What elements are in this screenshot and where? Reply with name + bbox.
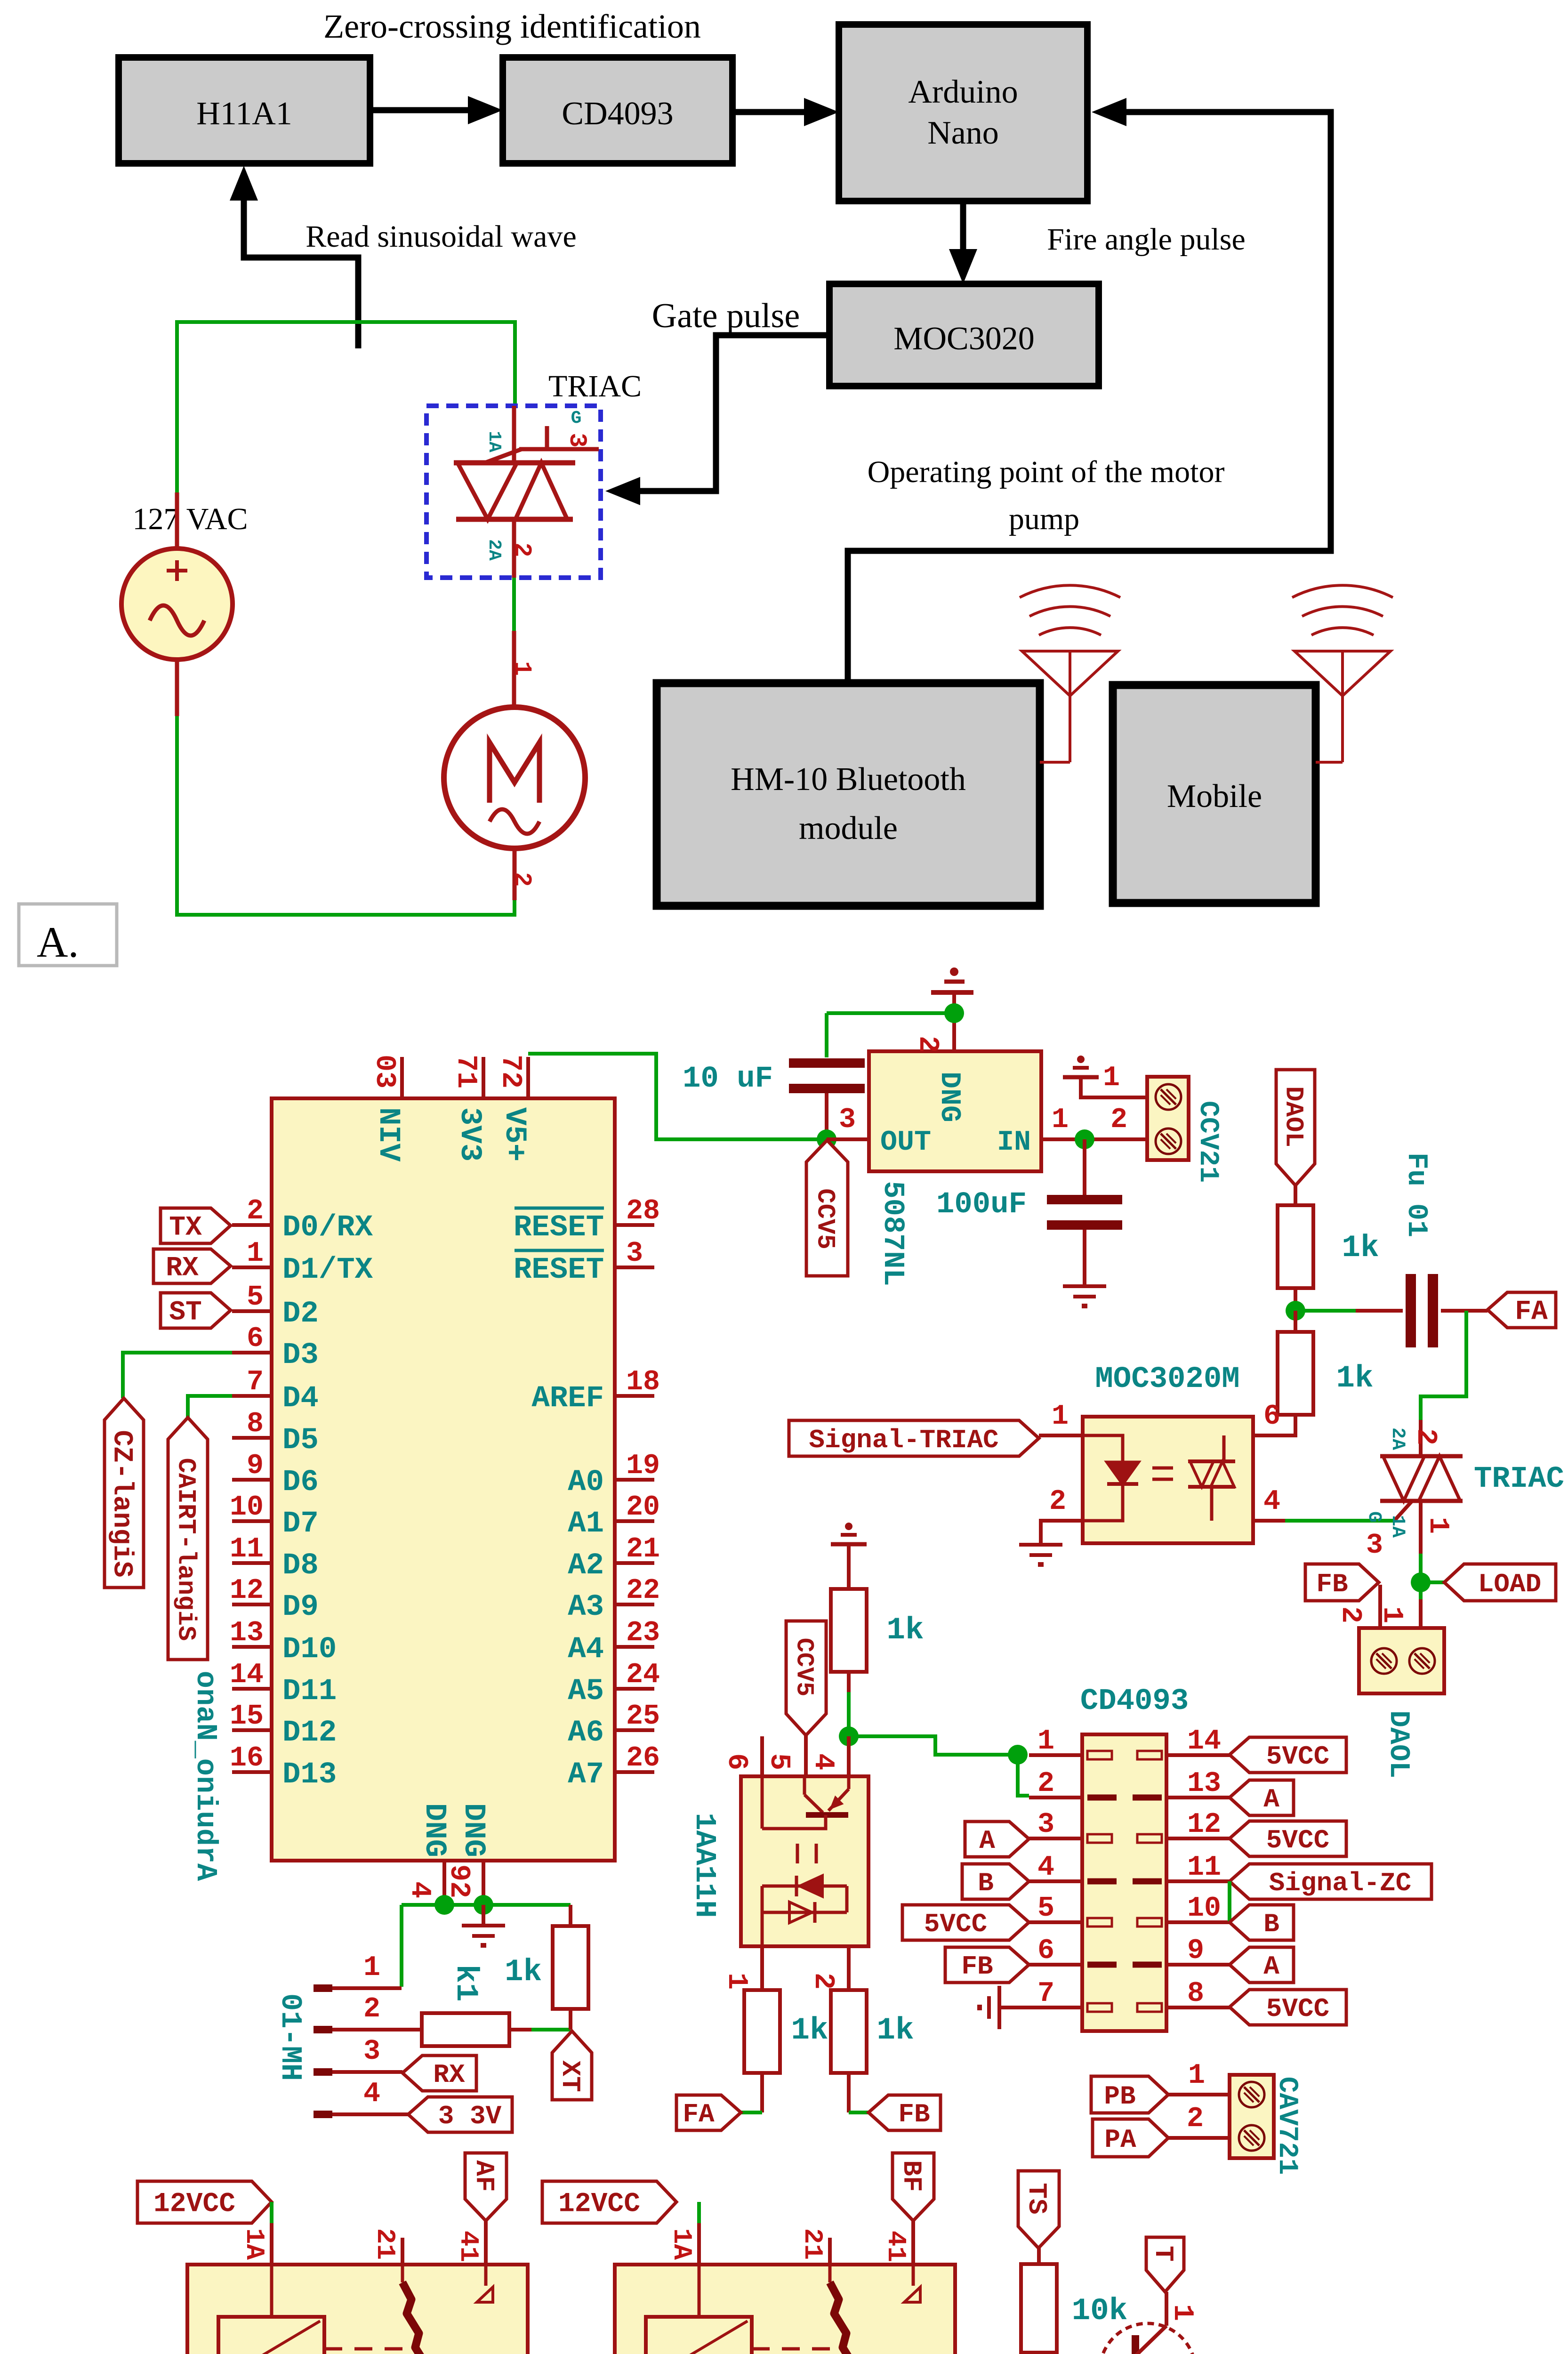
optocoupler U4 H11AA1 body xyxy=(741,1776,868,1946)
global label 5VCC (CD4093 pin8) xyxy=(1230,1990,1346,2025)
junction OUT node xyxy=(817,1129,836,1149)
Arduino pin 21 (A2) xyxy=(615,1561,654,1565)
svg-text:FB: FB xyxy=(961,1951,993,1982)
relay K2 body xyxy=(615,2265,955,2354)
svg-text:onaN_oniudrA: onaN_oniudrA xyxy=(189,1671,222,1881)
svg-text:5VCC: 5VCC xyxy=(1266,1994,1329,2024)
svg-text:CD4093: CD4093 xyxy=(1080,1685,1189,1718)
AC source V1 127VAC xyxy=(175,492,179,549)
svg-text:5087NL: 5087NL xyxy=(876,1181,909,1286)
global label RX (Arduino) xyxy=(153,1249,231,1283)
global label ST (Arduino) xyxy=(161,1293,231,1328)
svg-text:A: A xyxy=(1263,1951,1279,1982)
wire 5VCC flag to pin 5 xyxy=(804,1735,808,1776)
svg-text:1: 1 xyxy=(1422,1517,1454,1534)
svg-text:1k: 1k xyxy=(876,2013,914,2048)
svg-text:PA: PA xyxy=(1104,2125,1136,2155)
svg-text:8: 8 xyxy=(1187,1978,1204,2010)
H11AA1 pin 6 stub xyxy=(760,1736,764,1776)
svg-text:D12: D12 xyxy=(282,1716,337,1750)
LN7805 pin 3 wire xyxy=(827,1137,869,1141)
svg-text:10: 10 xyxy=(1187,1893,1221,1925)
svg-text:CCV5: CCV5 xyxy=(790,1638,818,1697)
svg-text:module: module xyxy=(799,810,898,846)
wire GND bus to resistor R-TX xyxy=(569,1905,572,1926)
arrow Arduino to MOC3020 (fire angle pulse) xyxy=(960,201,966,258)
svg-text:4: 4 xyxy=(807,1753,839,1770)
svg-text:2: 2 xyxy=(1110,1104,1127,1136)
svg-text:6: 6 xyxy=(1263,1401,1280,1433)
global label FB (CD4093 pin6) xyxy=(945,1947,1029,1983)
svg-text:D3: D3 xyxy=(282,1338,319,1372)
svg-text:H11A1: H11A1 xyxy=(196,96,292,132)
CD4093 pin 9 xyxy=(1166,1963,1230,1967)
wire +5V to LN7805 OUT (green) xyxy=(528,1054,825,1139)
MOC3020M internal triac xyxy=(1188,1459,1235,1463)
wire to CD4093 pin2 (green) xyxy=(1018,1755,1029,1796)
global label PB (127VAC) xyxy=(1091,2076,1168,2113)
wire 3 3V flag to HM-10 pin4 xyxy=(332,2112,408,2116)
svg-text:Fu 01: Fu 01 xyxy=(1400,1153,1432,1237)
CD4093 pin 1 xyxy=(1029,1753,1082,1757)
CD4093 pin 6 xyxy=(1029,1963,1082,1967)
relay K2 switch arm xyxy=(830,2282,870,2354)
Arduino pin 16 (D13) xyxy=(232,1770,272,1774)
wire R3 to junction xyxy=(847,1672,851,1692)
svg-text:D9: D9 xyxy=(282,1590,319,1624)
wire GND bus down to HM-10 pin1 xyxy=(400,1905,403,1987)
terminal block X2 LOAD xyxy=(1359,1628,1444,1693)
svg-text:2: 2 xyxy=(1409,1428,1441,1445)
svg-text:3 3V: 3 3V xyxy=(438,2101,502,2131)
svg-text:1A: 1A xyxy=(1387,1515,1408,1538)
Arduino top pin 27 (+5V) xyxy=(526,1057,530,1098)
svg-text:Operating point of the motor: Operating point of the motor xyxy=(868,455,1225,489)
svg-text:Fire angle pulse: Fire angle pulse xyxy=(1047,222,1246,257)
svg-text:19: 19 xyxy=(626,1450,660,1482)
gate pulse wire to TRIAC xyxy=(635,335,829,491)
svg-text:92: 92 xyxy=(442,1864,474,1898)
global label 3 3V (HM-10) xyxy=(408,2097,512,2132)
global label LOAD (to the right) xyxy=(1421,1580,1444,1584)
svg-text:B: B xyxy=(978,1868,994,1898)
svg-text:3: 3 xyxy=(626,1238,643,1270)
svg-text:13: 13 xyxy=(1187,1768,1221,1800)
svg-text:11: 11 xyxy=(230,1533,264,1565)
svg-text:13: 13 xyxy=(230,1617,264,1649)
svg-text:Nano: Nano xyxy=(927,115,999,151)
global label FA (top right) xyxy=(1488,1292,1556,1328)
IC U1 Arduino_Nano body xyxy=(272,1098,615,1861)
svg-text:72: 72 xyxy=(494,1055,526,1088)
transistor Q2 BC548 xyxy=(1100,2323,1196,2354)
global label FB (pin2 of load terminal) xyxy=(1305,1564,1379,1601)
H11AA1 pin 2 xyxy=(847,1946,851,1990)
svg-text:D7: D7 xyxy=(282,1507,319,1541)
svg-text:FA: FA xyxy=(683,2099,715,2129)
svg-text:D4: D4 xyxy=(282,1382,319,1416)
motor M1 xyxy=(444,707,585,848)
block MOC3020 xyxy=(829,284,1099,386)
svg-text:2: 2 xyxy=(807,1973,839,1990)
svg-text:TS: TS xyxy=(1021,2183,1052,2214)
svg-text:71: 71 xyxy=(450,1055,482,1088)
wire HM-10 pin1 to GND bus xyxy=(332,1986,402,1990)
svg-text:9: 9 xyxy=(247,1450,264,1482)
svg-text:03: 03 xyxy=(368,1055,400,1088)
svg-text:T: T xyxy=(1148,2246,1178,2262)
HM-10 pin 1 xyxy=(314,1984,332,1992)
CD4093 pin 10 xyxy=(1166,1920,1230,1924)
wire 12VCC to K1 A1 xyxy=(270,2202,273,2223)
svg-text:21: 21 xyxy=(626,1533,660,1565)
wire FB to terminal pin 2 xyxy=(1378,1585,1382,1628)
power flag 5VCC xyxy=(825,1139,828,1162)
svg-text:23: 23 xyxy=(626,1617,660,1649)
svg-text:100uF: 100uF xyxy=(936,1188,1027,1222)
svg-text:RESET: RESET xyxy=(514,1211,604,1245)
block H11A1 xyxy=(119,57,370,163)
resistor R3 1k (pull-up) xyxy=(831,1589,867,1672)
svg-text:k1: k1 xyxy=(448,1964,483,2001)
H11AA1 internal phototransistor xyxy=(803,1776,806,1795)
svg-text:RX: RX xyxy=(433,2060,465,2090)
Arduino pin 18 (AREF) xyxy=(615,1394,654,1398)
svg-text:A1: A1 xyxy=(568,1507,604,1541)
svg-text:127 VAC: 127 VAC xyxy=(132,502,248,536)
Arduino pin 10 (D7) xyxy=(232,1519,272,1523)
junction GND pin4 xyxy=(434,1895,454,1915)
svg-text:V5+: V5+ xyxy=(497,1107,531,1161)
svg-text:A0: A0 xyxy=(568,1466,604,1499)
junction R1-R2-C3 xyxy=(1294,1288,1297,1311)
svg-text:OUT: OUT xyxy=(880,1127,931,1159)
svg-text:15: 15 xyxy=(230,1701,264,1733)
Arduino pin 1 (D1/TX) xyxy=(232,1266,272,1269)
svg-text:D0/RX: D0/RX xyxy=(282,1211,373,1245)
Arduino pin 26 (A7) xyxy=(615,1770,654,1774)
power flag 5VCC (H11AA1) xyxy=(786,1621,826,1735)
relay K1 switch common pin 12 xyxy=(401,2238,404,2265)
HM-10 pin 3 xyxy=(314,2068,332,2076)
global label TX (HM-10, vertical) xyxy=(552,2031,592,2100)
relay K1 body xyxy=(187,2265,528,2354)
svg-text:1A: 1A xyxy=(484,431,504,452)
Arduino pin 3 (RESET) xyxy=(615,1266,654,1269)
svg-text:AF: AF xyxy=(469,2160,499,2192)
global label LOAD (vertical top) xyxy=(1276,1070,1315,1185)
junction H11AA1 pin4 node xyxy=(839,1726,859,1746)
Arduino pin 12 (D9) xyxy=(232,1603,272,1606)
HM-10 pin 4 xyxy=(314,2111,332,2118)
wire R8 to base xyxy=(1039,2353,1129,2354)
Arduino pin 28 (RESET) xyxy=(615,1223,654,1227)
svg-text:D6: D6 xyxy=(282,1466,319,1499)
svg-text:DNG: DNG xyxy=(933,1072,965,1122)
svg-text:5: 5 xyxy=(763,1753,795,1770)
svg-text:6: 6 xyxy=(247,1323,264,1355)
svg-text:2: 2 xyxy=(247,1195,264,1227)
svg-text:PB: PB xyxy=(1104,2081,1135,2112)
CD4093 pin 12 xyxy=(1166,1837,1230,1840)
svg-text:1k: 1k xyxy=(886,1612,924,1648)
svg-text:25: 25 xyxy=(626,1701,660,1733)
global label RX (HM-10) xyxy=(402,2056,476,2091)
svg-text:14: 14 xyxy=(230,1659,264,1691)
wire junction down to H11AA1 pin 4 xyxy=(847,1736,851,1776)
svg-text:2: 2 xyxy=(911,1036,943,1053)
wire D4 to Signal-TRIAC xyxy=(188,1396,232,1418)
svg-text:CAV721: CAV721 xyxy=(1271,2077,1302,2175)
svg-text:Signal-TRIAC: Signal-TRIAC xyxy=(809,1425,998,1455)
svg-text:Mobile: Mobile xyxy=(1167,778,1262,814)
global label 5VCC (CD4093 pin12) xyxy=(1230,1821,1346,1856)
svg-text:2: 2 xyxy=(1037,1768,1054,1800)
svg-text:4: 4 xyxy=(1037,1852,1054,1884)
Arduino pin 9 (D6) xyxy=(232,1478,272,1482)
svg-text:1: 1 xyxy=(1052,1401,1069,1433)
svg-text:21: 21 xyxy=(797,2228,828,2260)
global label FA (above K1) xyxy=(465,2153,507,2221)
wire GND bus under Arduino xyxy=(402,1903,571,1907)
CD4093 pin 8 xyxy=(1166,2006,1230,2009)
wire junction to C3 (green) xyxy=(1295,1309,1356,1313)
svg-text:FA: FA xyxy=(1515,1297,1548,1328)
svg-text:G: G xyxy=(571,408,582,428)
svg-text:20: 20 xyxy=(626,1491,660,1524)
wire PA to terminal pin2 xyxy=(1168,2136,1230,2140)
svg-text:2: 2 xyxy=(1334,1606,1366,1623)
feedback wire Arduino to HM-10 xyxy=(848,112,1331,683)
svg-text:1: 1 xyxy=(508,661,536,676)
terminal block X1 12VCC xyxy=(1147,1077,1189,1160)
MOC3020M pin 4 wire to TRIAC gate xyxy=(1253,1519,1285,1523)
relay K2 switch common pin 12 xyxy=(828,2238,832,2265)
svg-text:5: 5 xyxy=(1037,1893,1054,1925)
block HM-10 Bluetooth module xyxy=(657,683,1040,906)
capacitor C2 100uF xyxy=(1083,1139,1086,1195)
junction GND pin29 xyxy=(474,1895,493,1915)
global label Signal-ZC (vertical) xyxy=(105,1398,144,1588)
svg-text:5: 5 xyxy=(247,1282,264,1314)
wire GND to capacitor C1 (green) xyxy=(827,1011,954,1015)
block Arduino Nano xyxy=(839,24,1087,201)
svg-text:5VCC: 5VCC xyxy=(1266,1825,1329,1855)
svg-text:D5: D5 xyxy=(282,1424,319,1458)
svg-text:TRIAC: TRIAC xyxy=(548,369,642,403)
ground at CD4093 pin7 xyxy=(999,2006,1029,2009)
wire FA node down to TRIAC A2 (green) xyxy=(1421,1311,1466,1420)
wire junction to CD4093 pin1 (green) xyxy=(849,1736,1018,1755)
svg-text:HM-10 Bluetooth: HM-10 Bluetooth xyxy=(731,761,966,798)
capacitor C1 10uF xyxy=(789,1058,865,1068)
global label Signal-ZC (CD4093 pin11) xyxy=(1230,1864,1431,1899)
svg-text:2: 2 xyxy=(508,542,536,557)
CD4093 pin 14 xyxy=(1166,1753,1230,1757)
ground symbol under Arduino xyxy=(482,1905,485,1926)
svg-text:G: G xyxy=(1363,1511,1384,1523)
TRIAC dashed box xyxy=(426,406,601,578)
Arduino pin 24 (A5) xyxy=(615,1687,654,1691)
wire triac to motor xyxy=(512,578,516,631)
CD4093 pin 7 xyxy=(1029,2006,1082,2009)
svg-text:Signal-ZC: Signal-ZC xyxy=(1269,1868,1411,1898)
svg-text:22: 22 xyxy=(626,1575,660,1607)
relay K2 dashed actuator link xyxy=(752,2347,842,2351)
svg-text:Gate pulse: Gate pulse xyxy=(652,297,800,335)
svg-text:Zero-crossing identification: Zero-crossing identification xyxy=(323,8,701,45)
svg-text:3: 3 xyxy=(1366,1530,1383,1562)
svg-text:1: 1 xyxy=(1103,1062,1120,1094)
junction CD4093 pin1 xyxy=(1008,1745,1028,1765)
svg-text:5VCC: 5VCC xyxy=(1266,1741,1329,1772)
svg-text:26: 26 xyxy=(626,1742,660,1774)
CD4093 pin 4 xyxy=(1029,1879,1082,1883)
svg-text:2A: 2A xyxy=(1387,1427,1408,1450)
svg-text:1k: 1k xyxy=(1342,1230,1379,1266)
svg-text:DNG: DNG xyxy=(456,1803,490,1857)
svg-text:41: 41 xyxy=(453,2231,483,2262)
svg-text:21: 21 xyxy=(370,2228,400,2260)
wire D3 to Signal-ZC xyxy=(123,1353,232,1398)
H11AA1 pin 1 xyxy=(760,1946,764,1990)
svg-text:A2: A2 xyxy=(568,1549,604,1583)
regulator U2 LN7805 body xyxy=(869,1051,1041,1171)
svg-text:01-MH: 01-MH xyxy=(273,1993,307,2081)
global label 5VCC (CD4093 pin5) xyxy=(902,1905,1029,1940)
svg-text:12: 12 xyxy=(1187,1809,1221,1841)
ground below C2 xyxy=(1063,1286,1106,1306)
svg-text:CCV21: CCV21 xyxy=(1192,1101,1223,1183)
svg-text:2: 2 xyxy=(1049,1486,1066,1518)
svg-text:1: 1 xyxy=(1166,2304,1198,2321)
svg-text:10k: 10k xyxy=(1072,2293,1128,2329)
svg-text:2: 2 xyxy=(508,872,536,887)
svg-text:LOAD: LOAD xyxy=(1478,1569,1541,1599)
svg-text:Read sinusoidal wave: Read sinusoidal wave xyxy=(306,219,577,254)
Arduino pin 20 (A1) xyxy=(615,1519,654,1523)
svg-text:3V3: 3V3 xyxy=(452,1107,486,1161)
Arduino pin 23 (A4) xyxy=(615,1645,654,1649)
triac symbol (A) xyxy=(512,406,516,463)
svg-text:1A: 1A xyxy=(239,2228,269,2260)
triac Q1 TRIAC xyxy=(1419,1420,1423,1456)
wire RX flag to HM-10 pin3 xyxy=(332,2070,402,2074)
MOC3020M coupling arrows xyxy=(1152,1467,1173,1470)
global label FA (bottom) xyxy=(741,2111,762,2114)
junction LN7805 GND xyxy=(944,1003,964,1023)
resistor R2 1k xyxy=(1294,1311,1297,1332)
CD4093 pin 2 xyxy=(1029,1796,1082,1799)
CD4093 pin 11 xyxy=(1166,1879,1230,1883)
svg-text:1A: 1A xyxy=(667,2228,697,2260)
power symbol GND above LN7805 xyxy=(950,967,958,976)
arrow CD4093 to Arduino xyxy=(732,109,812,115)
svg-text:MOC3020M: MOC3020M xyxy=(1095,1362,1239,1396)
svg-text:CAIRT-langiS: CAIRT-langiS xyxy=(171,1458,200,1641)
Arduino pin 6 (D3) xyxy=(232,1351,272,1354)
svg-text:DAOL: DAOL xyxy=(1382,1710,1414,1778)
svg-text:D13: D13 xyxy=(282,1758,337,1792)
relay K2 coil xyxy=(698,2265,701,2317)
resistor R6 1k (horizontal) xyxy=(422,2013,509,2046)
svg-text:TRIAC: TRIAC xyxy=(1474,1462,1564,1496)
global label A (CD4093 pin13) xyxy=(1230,1780,1294,1815)
antenna 1 (HM-10) xyxy=(1022,651,1118,696)
capacitor C3 10uF (vertical plates) xyxy=(1406,1274,1416,1347)
svg-text:AREF: AREF xyxy=(531,1382,604,1416)
svg-text:MOC3020: MOC3020 xyxy=(893,321,1034,357)
LN7805 pin 1 wire (IN) xyxy=(1041,1137,1147,1141)
svg-text:1: 1 xyxy=(720,1973,752,1990)
svg-text:FB: FB xyxy=(1316,1569,1348,1599)
svg-text:18: 18 xyxy=(626,1366,660,1398)
svg-text:RX: RX xyxy=(166,1253,199,1284)
wire TRIAC A1 to LOAD node xyxy=(1419,1554,1423,1599)
global label 12VCC (relay K1) xyxy=(137,2181,272,2223)
svg-text:A6: A6 xyxy=(568,1716,604,1750)
Arduino pin 7 (D4) xyxy=(232,1394,272,1398)
svg-text:9: 9 xyxy=(1187,1935,1204,1967)
svg-text:CCV5: CCV5 xyxy=(811,1188,839,1250)
wire R2 to MOC pin6 xyxy=(1253,1415,1295,1435)
svg-text:4: 4 xyxy=(403,1881,435,1898)
H11AA1 coupling arrows xyxy=(796,1844,799,1863)
Arduino bottom pin 29 (GND) xyxy=(482,1861,485,1905)
svg-text:7: 7 xyxy=(1037,1978,1054,2010)
svg-text:A3: A3 xyxy=(568,1590,604,1624)
wire R6 to TX node xyxy=(509,2028,531,2032)
CD4093 pin 5 xyxy=(1029,1920,1082,1924)
junction LOAD node xyxy=(1411,1572,1431,1592)
Arduino pin 14 (D11) xyxy=(232,1687,272,1691)
Arduino pin 2 (D0/RX) xyxy=(232,1223,272,1227)
svg-text:IN: IN xyxy=(997,1127,1031,1159)
global label B (CD4093 pin4) xyxy=(962,1864,1029,1899)
svg-text:6: 6 xyxy=(1037,1935,1054,1967)
svg-text:BF: BF xyxy=(896,2160,926,2192)
MOC3020M internal LED xyxy=(1083,1435,1123,1462)
optocoupler U3 MOC3020M body xyxy=(1083,1417,1253,1543)
global label TX (Arduino) xyxy=(161,1208,231,1243)
svg-text:A5: A5 xyxy=(568,1675,604,1709)
svg-text:8: 8 xyxy=(247,1408,264,1440)
svg-text:D10: D10 xyxy=(282,1633,337,1667)
resistor R5 1k (FB) xyxy=(831,1990,867,2073)
relay K1 NC contact pin 14 xyxy=(484,2221,488,2265)
svg-text:A7: A7 xyxy=(568,1758,604,1792)
svg-text:5VCC: 5VCC xyxy=(924,1909,987,1939)
Arduino pin 25 (A6) xyxy=(615,1728,654,1732)
relay K1 dashed actuator link xyxy=(324,2347,414,2351)
Arduino top pin 17 (3V3) xyxy=(482,1057,485,1098)
relay K2 NC contact pin 14 xyxy=(911,2221,915,2265)
global label FB (above K2) xyxy=(893,2153,934,2221)
svg-text:D1/TX: D1/TX xyxy=(282,1253,373,1287)
svg-text:A: A xyxy=(979,1826,995,1856)
global label PA (127VAC) xyxy=(1093,2119,1168,2157)
svg-text:12VCC: 12VCC xyxy=(558,2189,640,2220)
global label A (CD4093 pin9) xyxy=(1230,1947,1294,1983)
MOC3020M pin 2 to ground xyxy=(1041,1521,1083,1545)
svg-text:RESET: RESET xyxy=(514,1253,604,1287)
svg-text:12VCC: 12VCC xyxy=(153,2189,235,2220)
block CD4093 xyxy=(503,57,732,163)
global label A (CD4093 pin3) xyxy=(965,1822,1029,1857)
H11AA1 internal back-to-back LEDs xyxy=(762,1885,847,1888)
global label 5VCC (CD4093 pin14) xyxy=(1230,1737,1346,1773)
wire pin11 to pin10 (green) xyxy=(1228,1881,1231,1922)
